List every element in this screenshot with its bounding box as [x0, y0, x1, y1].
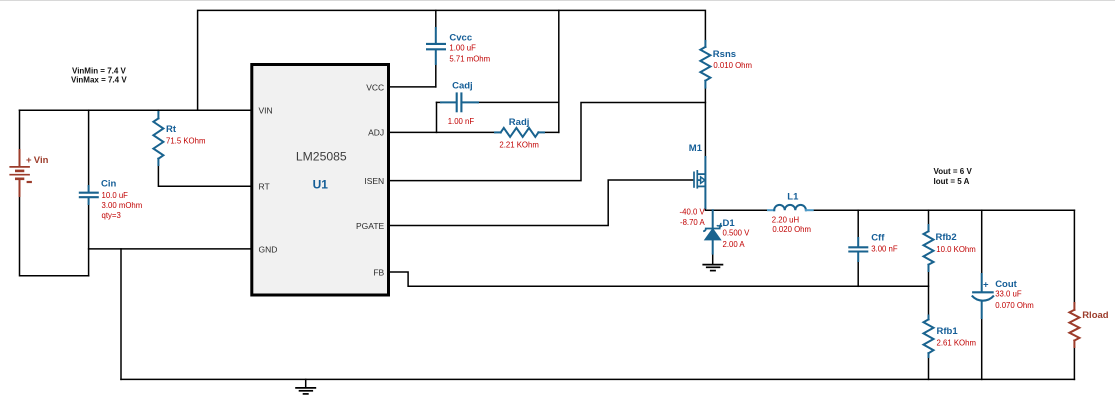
resistor Rload: [1069, 303, 1079, 347]
svg-text:Cadj: Cadj: [452, 80, 473, 91]
svg-text:Rfb2: Rfb2: [936, 232, 957, 243]
svg-text:2.20 uH: 2.20 uH: [772, 216, 799, 225]
wire: ISEN pin wire: [390, 103, 705, 181]
wire: Rsns bottom to M1 drain: [704, 88, 706, 157]
inductor L1: [768, 205, 813, 210]
label Rsns value: [713, 49, 752, 70]
svg-text:Rsns: Rsns: [713, 49, 736, 60]
resistor Rfb2: [924, 225, 934, 271]
wire: battery top lead: [19, 110, 21, 150]
svg-text:Vout = 6 V: Vout = 6 V: [934, 167, 973, 176]
capacitor Cout polarized: [972, 274, 994, 318]
svg-text:Radj: Radj: [509, 117, 530, 128]
svg-text:-8.70 A: -8.70 A: [680, 218, 706, 227]
svg-text:FB: FB: [373, 267, 384, 277]
capacitor Cvcc: [426, 28, 446, 64]
ground bottom rail: [295, 379, 316, 394]
svg-text:10.0 uF: 10.0 uF: [102, 191, 129, 200]
wire: bottom ground rail: [121, 378, 1074, 380]
svg-text:qty=3: qty=3: [102, 211, 121, 220]
wire: FB pin wire: [390, 272, 929, 286]
label D1 probe and values: [717, 218, 750, 249]
wire: PGATE pin wire: [390, 180, 693, 226]
svg-text:L1: L1: [787, 191, 799, 202]
wire: Rload branch: [1073, 210, 1075, 303]
svg-text:2.21 KOhm: 2.21 KOhm: [499, 141, 538, 150]
resistor Rsns: [700, 41, 710, 88]
capacitor Cadj: [441, 92, 478, 112]
svg-text:U1: U1: [313, 178, 329, 192]
label Cadj value: [448, 80, 475, 126]
svg-text:0.020 Ohm: 0.020 Ohm: [772, 225, 811, 234]
svg-text:D1: D1: [723, 218, 736, 229]
wire: top VIN rail: [198, 10, 706, 110]
ground under D1: [702, 265, 723, 271]
wire: Rt bottom to RT pin: [158, 165, 250, 186]
wire: Cadj branch up from ADJ wire: [436, 102, 438, 132]
node Vin label: [26, 155, 49, 182]
svg-text:2.61 KOhm: 2.61 KOhm: [937, 339, 976, 348]
svg-text:VCC: VCC: [366, 82, 384, 92]
wire: GND pin wire: [89, 248, 251, 250]
svg-text:Rfb1: Rfb1: [937, 326, 959, 337]
svg-text:+: +: [983, 280, 989, 291]
svg-text:VinMax = 7.4 V: VinMax = 7.4 V: [71, 76, 127, 85]
svg-text:-40.0 V: -40.0 V: [680, 208, 706, 217]
wire: SW node M1 source to L1: [705, 208, 768, 210]
label Cvcc value: [449, 32, 490, 63]
svg-text:VIN: VIN: [259, 106, 273, 116]
svg-text:0.500 V: 0.500 V: [723, 229, 751, 238]
wire: VCC pin to Cvcc: [390, 86, 436, 88]
label Rt value: [166, 124, 205, 145]
svg-text:1.00 uF: 1.00 uF: [449, 44, 476, 53]
wire: Cout bottom to ground rail: [981, 318, 983, 379]
wire: ADJ network tie to VIN rail: [558, 10, 560, 132]
label Cout value: [983, 279, 1034, 310]
wire: ADJ pin wire with Radj: [390, 131, 495, 133]
wire: Cvcc top lead from rail: [435, 10, 437, 28]
battery Vin: [9, 150, 30, 196]
label L1 value: [772, 191, 811, 234]
svg-text:ADJ: ADJ: [368, 128, 384, 138]
svg-text:0.070 Ohm: 0.070 Ohm: [995, 301, 1034, 310]
svg-text:5.71 mOhm: 5.71 mOhm: [449, 55, 490, 64]
wire: battery bottom lead to ground loop: [20, 196, 89, 276]
wire: VIN horizontal from battery to U1: [20, 109, 251, 111]
svg-text:0.010 Ohm: 0.010 Ohm: [713, 61, 752, 70]
svg-text:Rt: Rt: [166, 124, 177, 135]
resistor Rt: [153, 112, 163, 165]
wire: Cout branch top: [981, 210, 983, 274]
wire: Cff branch vertical bottom to FB wire: [857, 261, 859, 286]
label VinMin VinMax: [71, 66, 127, 84]
transistor M1 NMOS: [694, 157, 705, 208]
label SW node voltage: [680, 208, 706, 227]
svg-text:PGATE: PGATE: [356, 221, 385, 231]
capacitor Cin: [79, 186, 99, 204]
wire: D1 anode to ground stem: [712, 254, 714, 264]
svg-text:GND: GND: [259, 244, 278, 254]
svg-text:71.5 KOhm: 71.5 KOhm: [166, 136, 205, 145]
svg-text:VinMin = 7.4 V: VinMin = 7.4 V: [72, 66, 127, 75]
label Cin value: [101, 179, 142, 221]
svg-text:2.00 A: 2.00 A: [723, 240, 746, 249]
wire: ground drop to bottom rail: [120, 249, 122, 380]
svg-text:Rload: Rload: [1082, 310, 1109, 321]
svg-text:RT: RT: [259, 182, 270, 192]
wire: Cin branch vertical: [88, 110, 90, 186]
svg-text:LM25085: LM25085: [296, 150, 347, 164]
wire: Rfb1 bottom to ground rail: [928, 357, 930, 379]
op-amp U1 LM25085 body: [252, 65, 389, 296]
wire: Cvcc bottom lead: [435, 64, 437, 87]
wire: Cadj horizontal wire: [437, 101, 442, 103]
svg-text:ISEN: ISEN: [364, 176, 384, 186]
wire: SW node L1 to output column: [813, 209, 1075, 211]
wire: Rfb2 branch from SW wire: [928, 210, 930, 225]
wire: Rfb2 bottom / Rfb1 top at FB node: [928, 271, 930, 316]
top window border: [0, 0, 1115, 2]
svg-text:10.0 KOhm: 10.0 KOhm: [936, 245, 975, 254]
wire: Cff branch vertical top: [857, 210, 859, 238]
svg-text:1.00 nF: 1.00 nF: [448, 117, 475, 126]
label Radj value: [499, 117, 538, 150]
svg-text:Cin: Cin: [101, 179, 117, 190]
label Cff value: [871, 233, 898, 254]
svg-text:3.00 nF: 3.00 nF: [871, 244, 898, 253]
diode D1 schottky: [703, 210, 722, 253]
svg-text:M1: M1: [689, 143, 703, 154]
resistor Rfb1: [924, 316, 934, 358]
capacitor Cff: [848, 238, 868, 261]
label Rfb1 value: [937, 326, 976, 348]
label Vout Iout: [934, 167, 973, 186]
svg-text:Cff: Cff: [871, 233, 885, 244]
svg-text:+: +: [26, 155, 32, 166]
svg-text:33.0 uF: 33.0 uF: [995, 290, 1022, 299]
wire: Rt top lead: [157, 110, 159, 112]
svg-text:Iout = 5 A: Iout = 5 A: [934, 177, 970, 186]
resistor Radj: [495, 128, 544, 137]
svg-text:Cvcc: Cvcc: [449, 32, 472, 43]
svg-text:Cout: Cout: [995, 279, 1017, 290]
svg-text:Vin: Vin: [34, 155, 49, 166]
label Rfb2 value: [936, 232, 976, 254]
svg-text:3.00 mOhm: 3.00 mOhm: [102, 201, 143, 210]
